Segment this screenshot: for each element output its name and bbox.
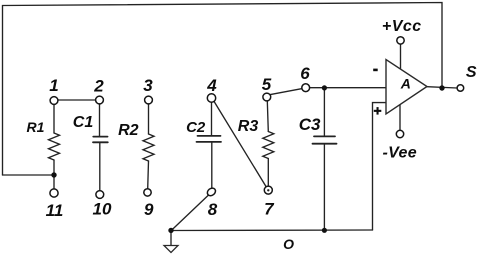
svg-text:9: 9 — [144, 200, 154, 219]
svg-text:C1: C1 — [73, 114, 94, 131]
svg-text:1: 1 — [49, 76, 58, 95]
svg-text:C2: C2 — [186, 119, 206, 136]
svg-text:3: 3 — [143, 76, 153, 95]
svg-text:R1: R1 — [27, 119, 45, 135]
svg-text:R3: R3 — [238, 118, 259, 135]
svg-text:O: O — [283, 236, 294, 252]
svg-text:5: 5 — [262, 75, 272, 94]
svg-text:R2: R2 — [118, 122, 139, 139]
svg-text:6: 6 — [300, 64, 310, 83]
svg-text:10: 10 — [93, 200, 112, 219]
svg-text:S: S — [466, 64, 477, 81]
svg-text:2: 2 — [93, 77, 104, 96]
svg-text:C3: C3 — [299, 115, 321, 134]
svg-text:11: 11 — [46, 201, 64, 220]
svg-text:4: 4 — [206, 76, 217, 95]
svg-text:-Vee: -Vee — [382, 145, 416, 162]
svg-text:+Vcc: +Vcc — [382, 18, 422, 35]
svg-text:7: 7 — [264, 200, 275, 219]
svg-text:8: 8 — [208, 200, 218, 219]
svg-text:A: A — [400, 75, 411, 91]
